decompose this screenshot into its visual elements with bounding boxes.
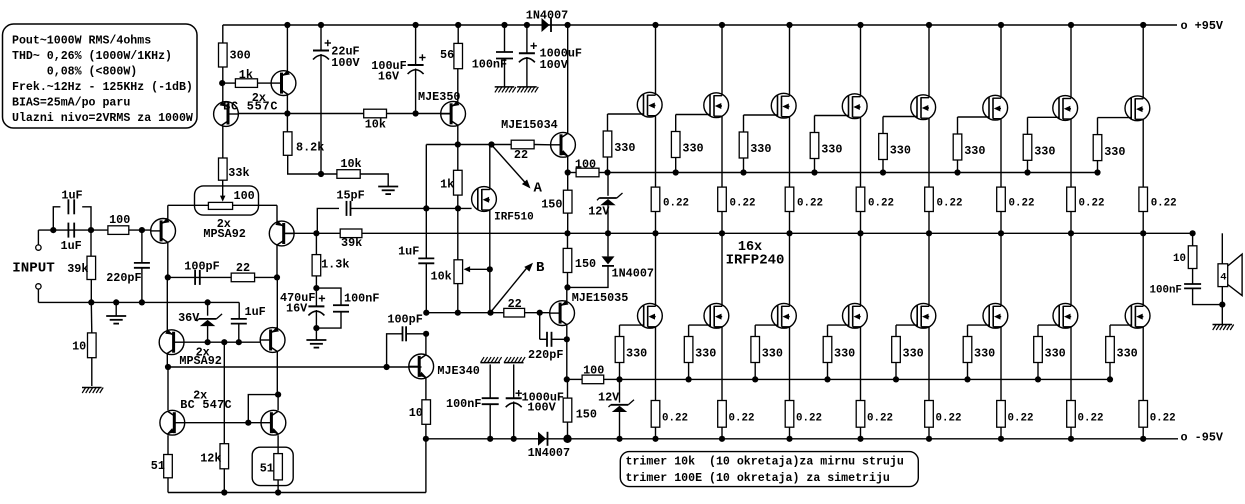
svg-text:100nF: 100nF — [344, 292, 379, 306]
svg-text:330: 330 — [682, 142, 703, 156]
trimmer 51 — [252, 447, 293, 492]
mosfet IRFP240 top #1 — [637, 25, 662, 187]
capacitor 15pF — [317, 188, 364, 233]
wire BC547 bases — [185, 420, 261, 426]
svg-text:1k: 1k — [440, 178, 454, 192]
resistor 150 ii — [563, 233, 596, 287]
resistor 0.22 top #2 — [718, 187, 756, 233]
svg-text:12V: 12V — [598, 391, 620, 405]
resistor 0.22 top #3 — [785, 187, 823, 233]
resistor 100 input — [108, 213, 150, 234]
svg-text:22: 22 — [514, 148, 528, 162]
resistor 330 bottom #5 — [892, 337, 924, 380]
resistor 1k IRF510 — [440, 145, 462, 209]
svg-text:10k: 10k — [340, 157, 361, 171]
svg-text:150: 150 — [575, 257, 596, 271]
transistor BC557C #2 — [271, 25, 296, 114]
svg-text:1uF: 1uF — [61, 239, 82, 253]
resistor 330 bottom #2 — [684, 337, 716, 380]
label 2x BC557C — [223, 91, 278, 114]
capacitor 220pF input — [106, 230, 150, 302]
svg-text:220pF: 220pF — [528, 348, 563, 362]
wire input top — [38, 227, 108, 233]
capacitor 100nF top — [472, 25, 513, 87]
resistor 8.2k — [283, 114, 337, 175]
resistor 56 — [440, 25, 463, 69]
resistor 33k — [219, 158, 250, 180]
svg-text:0.22: 0.22 — [1150, 412, 1176, 424]
svg-text:BC 547C: BC 547C — [180, 398, 232, 412]
resistor 0.22 top #6 — [997, 187, 1035, 233]
resistor 330 bottom #7 — [1034, 337, 1066, 380]
svg-text:MJE340: MJE340 — [437, 364, 479, 378]
ground 1000uF bottom — [504, 357, 525, 363]
svg-text:1N4007: 1N4007 — [526, 9, 568, 23]
resistor 39k input — [67, 230, 95, 302]
svg-text:0.22: 0.22 — [662, 412, 688, 424]
svg-text:0.22: 0.22 — [1078, 412, 1104, 424]
wire base line 113.5 — [238, 110, 451, 116]
node +95V terminal label — [1181, 19, 1224, 33]
info box — [3, 24, 198, 128]
capacitor 100nF 470uF parallel — [313, 288, 379, 331]
svg-text:330: 330 — [821, 143, 842, 157]
svg-text:330: 330 — [834, 346, 855, 360]
mosfet IRFP240 bottom #8 — [1125, 233, 1150, 400]
wire BC557C1 collector — [222, 125, 224, 158]
transistor MJE15035 — [549, 287, 628, 379]
svg-text:0.22: 0.22 — [1079, 198, 1105, 210]
svg-text:IRF510: IRF510 — [494, 212, 534, 224]
svg-text:100: 100 — [234, 189, 255, 203]
mosfet IRFP240 top #2 — [704, 25, 729, 187]
capacitor 100uF — [371, 25, 425, 114]
node bias top junction — [565, 169, 571, 175]
svg-text:MPSA92: MPSA92 — [203, 227, 245, 241]
transistor MJE15034 — [501, 25, 575, 173]
svg-text:1N4007: 1N4007 — [612, 266, 654, 280]
node bias bottom junction — [564, 376, 570, 382]
resistor 10k to ground — [318, 157, 388, 187]
transistor BC547C #1 — [160, 367, 185, 455]
svg-text:100: 100 — [109, 213, 130, 227]
svg-text:1k: 1k — [239, 68, 253, 82]
svg-text:100V: 100V — [331, 56, 360, 70]
mosfet IRFP240 top #3 — [771, 25, 796, 187]
svg-text:0.22: 0.22 — [1009, 198, 1035, 210]
svg-text:22: 22 — [236, 261, 250, 275]
mosfet IRFP240 bottom #4 — [843, 233, 868, 400]
wire feedback line — [285, 230, 1195, 236]
svg-text:100nF: 100nF — [472, 58, 507, 72]
node +95V rail junctions — [284, 22, 1146, 28]
svg-text:0.22: 0.22 — [797, 198, 823, 210]
resistor 330 bottom #8 — [1106, 337, 1138, 380]
wire gate bottom #5 — [896, 325, 917, 336]
zener 12V top — [588, 173, 622, 234]
resistor 0.22 bottom #3 — [785, 401, 822, 439]
svg-text:330: 330 — [614, 141, 635, 155]
wire bases pair2 — [184, 339, 260, 345]
resistor 330 top #6 — [953, 134, 985, 173]
resistor 0.22 bottom #6 — [997, 401, 1034, 439]
resistor 330 top #3 — [739, 132, 771, 173]
wire collector-base link — [248, 392, 281, 423]
resistor 0.22 bottom #7 — [1067, 401, 1104, 439]
resistor 330 top #7 — [1023, 134, 1055, 172]
ground 100nF bottom — [480, 357, 501, 363]
ground speaker — [1213, 305, 1234, 330]
capacitor 100nF zobel — [1150, 269, 1223, 305]
label 2x BC547C — [180, 388, 232, 411]
transistor MPSA92 #4 — [260, 277, 285, 394]
capacitor 470uF — [280, 285, 325, 340]
node -95V terminal label — [1181, 431, 1224, 445]
diode 1N4007 bottom rail — [528, 432, 570, 460]
svg-text:12V: 12V — [588, 204, 610, 218]
wire gate bottom #1 — [620, 325, 644, 336]
ground 1000uF top — [517, 87, 538, 93]
svg-text:10: 10 — [72, 339, 86, 353]
resistor 330 top #2 — [671, 132, 703, 173]
transistor BC557C #1 — [214, 101, 239, 127]
mosfet IRFP240 bottom #3 — [772, 233, 797, 400]
svg-text:10: 10 — [409, 406, 423, 420]
wire gate top #2 — [676, 115, 710, 132]
svg-text:39k: 39k — [341, 236, 362, 250]
speaker 4 ohm — [1218, 233, 1242, 307]
ground 470uF — [306, 340, 326, 348]
label 1N4007 mid — [612, 266, 654, 280]
resistor 100 bias top — [568, 158, 608, 177]
svg-text:MPSA92: MPSA92 — [179, 354, 221, 368]
wire lower base line — [423, 310, 504, 316]
svg-text:39k: 39k — [67, 262, 88, 276]
capacitor 100nF bottom — [446, 364, 499, 438]
wire top gate bus — [604, 169, 1100, 175]
ground 100nF top — [495, 87, 516, 93]
svg-text:1N4007: 1N4007 — [528, 446, 570, 460]
wire input ground line — [38, 299, 239, 305]
mosfet IRFP240 bottom #2 — [704, 233, 729, 400]
svg-text:IRFP240: IRFP240 — [726, 252, 785, 268]
svg-text:330: 330 — [695, 346, 716, 360]
wire second stage emitter line — [165, 364, 422, 370]
svg-text:0.22: 0.22 — [937, 198, 963, 210]
svg-text:51: 51 — [260, 461, 274, 475]
svg-text:0.22: 0.22 — [1151, 198, 1177, 210]
wire -95V rail — [426, 438, 1178, 440]
wire gate bottom #4 — [828, 325, 849, 336]
wire gate bottom #8 — [1110, 325, 1131, 336]
mosfet IRFP240 top #4 — [842, 25, 867, 187]
resistor 12k — [200, 342, 228, 492]
svg-text:MJE15034: MJE15034 — [501, 118, 558, 132]
resistor 100 bias bottom — [567, 363, 620, 383]
wire gate top #6 — [958, 117, 990, 134]
svg-text:330: 330 — [1045, 346, 1066, 360]
ground input 10 — [82, 358, 103, 393]
svg-text:16V: 16V — [378, 70, 400, 84]
svg-text:0,08% (<800W): 0,08% (<800W) — [47, 65, 137, 78]
wire emitters to trimmer — [168, 204, 277, 206]
svg-text:o -95V: o -95V — [1181, 431, 1224, 445]
mosfet IRF510 — [472, 145, 534, 313]
trimmer 100 — [195, 180, 259, 215]
diode 1N4007 mid — [564, 233, 614, 290]
capacitor 1000uF top — [519, 25, 582, 87]
resistor 22 stage1 — [231, 261, 254, 282]
wire gate top #8 — [1098, 118, 1132, 135]
resistor 22 MJE15034 — [511, 140, 534, 162]
capacitor 1uF input parallel loop — [53, 189, 91, 230]
resistor 150 iii — [563, 379, 597, 438]
transistor MJE350 — [418, 69, 466, 145]
capacitor 100pF stage1 — [184, 260, 219, 285]
resistor 330 bottom #3 — [751, 337, 783, 380]
resistor 1k — [222, 68, 271, 88]
resistor 0.22 bottom #2 — [718, 401, 755, 439]
svg-text:22: 22 — [508, 297, 522, 311]
wire gate bottom #7 — [1038, 325, 1059, 336]
resistor 22 MJE15035 — [504, 297, 550, 317]
svg-text:100V: 100V — [540, 58, 569, 72]
wire gate top #5 — [883, 117, 917, 134]
svg-text:150: 150 — [576, 407, 597, 421]
svg-text:10: 10 — [1173, 253, 1186, 265]
diode 1N4007 top rail — [526, 9, 568, 33]
svg-text:330: 330 — [1104, 145, 1125, 159]
wire gate top #3 — [744, 115, 778, 132]
svg-text:Frek.~12Hz - 125KHz (-1dB): Frek.~12Hz - 125KHz (-1dB) — [12, 81, 193, 94]
svg-text:o +95V: o +95V — [1181, 19, 1224, 33]
svg-text:A: A — [534, 181, 543, 197]
wire VAS collector — [426, 141, 534, 147]
mosfet IRFP240 bottom #7 — [1053, 233, 1078, 400]
wire collectors join — [165, 274, 280, 280]
resistor 0.22 bottom #5 — [925, 401, 962, 439]
resistor 0.22 top #5 — [925, 187, 963, 233]
svg-text:0.22: 0.22 — [730, 198, 756, 210]
capacitor 100pF MJE340 — [387, 313, 427, 367]
svg-text:THD~ 0,26% (1000W/1KHz): THD~ 0,26% (1000W/1KHz) — [12, 50, 172, 63]
svg-text:INPUT: INPUT — [12, 261, 55, 277]
transistor MPSA92 #2 — [269, 205, 294, 277]
svg-text:220pF: 220pF — [106, 271, 141, 285]
capacitor 1uF input series — [61, 223, 82, 253]
svg-text:15pF: 15pF — [336, 188, 364, 202]
node B arrow — [491, 260, 545, 312]
svg-text:33k: 33k — [228, 166, 249, 180]
resistor 330 top #4 — [810, 133, 842, 173]
svg-text:B: B — [536, 260, 545, 276]
mosfet IRFP240 top #6 — [983, 25, 1008, 187]
resistor 330 top #8 — [1093, 135, 1125, 173]
svg-text:100pF: 100pF — [184, 260, 219, 274]
svg-text:100pF: 100pF — [387, 313, 422, 327]
label 2x MPSA92 second — [179, 346, 221, 368]
mosfet IRFP240 bottom #6 — [983, 233, 1008, 400]
svg-text:4: 4 — [1220, 271, 1226, 283]
svg-text:330: 330 — [974, 346, 995, 360]
label INPUT — [12, 261, 55, 277]
svg-text:100V: 100V — [527, 401, 556, 415]
capacitor 1000uF bottom — [506, 364, 564, 438]
svg-text:MJE15035: MJE15035 — [572, 291, 629, 305]
wire gate top #4 — [815, 116, 849, 133]
svg-text:36V: 36V — [178, 311, 200, 325]
svg-text:330: 330 — [762, 346, 783, 360]
resistor 10 input — [72, 302, 96, 357]
capacitor 1uF VAS — [398, 244, 434, 312]
transistor MPSA92 #1 — [150, 205, 175, 277]
resistor 10 MJE340 — [409, 400, 431, 439]
svg-text:150: 150 — [541, 198, 562, 212]
resistor 0.22 top #4 — [856, 187, 894, 233]
node A arrow — [492, 146, 542, 197]
svg-text:0.22: 0.22 — [867, 412, 893, 424]
svg-text:16V: 16V — [286, 302, 308, 316]
mosfet IRFP240 bottom #1 — [638, 233, 663, 400]
svg-text:56: 56 — [440, 48, 454, 62]
wire VAS vertical — [425, 145, 427, 259]
resistor 10k first — [364, 109, 387, 132]
svg-text:trimer 10k (10 okretaja)za mi: trimer 10k (10 okretaja)za mirnu struju — [626, 455, 904, 468]
wire 300 to junction — [219, 67, 225, 103]
svg-text:100: 100 — [583, 363, 604, 377]
resistor 330 bottom #6 — [963, 337, 995, 380]
svg-text:10k: 10k — [365, 118, 386, 132]
svg-text:330: 330 — [903, 346, 924, 360]
svg-text:100nF: 100nF — [1150, 285, 1182, 297]
resistor 330 bottom #4 — [823, 337, 855, 380]
transistor MPSA92 #3 — [159, 277, 184, 367]
svg-text:1uF: 1uF — [398, 244, 419, 258]
svg-text:51: 51 — [151, 459, 165, 473]
wire gate bottom #3 — [755, 325, 778, 336]
resistor 0.22 bottom #1 — [651, 401, 688, 439]
resistor 150 i — [541, 173, 572, 234]
svg-text:BIAS=25mA/po paru: BIAS=25mA/po paru — [12, 96, 130, 109]
resistor 330 top #5 — [879, 134, 911, 173]
wire gate bottom #2 — [689, 325, 711, 336]
svg-text:330: 330 — [750, 142, 771, 156]
capacitor 22uF — [313, 25, 361, 174]
svg-text:0.22: 0.22 — [1008, 412, 1034, 424]
trimpot 10k VAS — [431, 208, 491, 312]
svg-text:330: 330 — [626, 346, 647, 360]
svg-text:MJE350: MJE350 — [418, 90, 460, 104]
svg-text:0.22: 0.22 — [796, 412, 822, 424]
resistor 300 — [219, 43, 251, 67]
svg-text:0.22: 0.22 — [868, 198, 894, 210]
svg-text:0.22: 0.22 — [936, 412, 962, 424]
svg-text:100nF: 100nF — [446, 397, 481, 411]
wire gate IRF510 — [351, 205, 472, 211]
svg-text:330: 330 — [890, 144, 911, 158]
transistor MJE340 — [409, 331, 480, 400]
wire bottom gate bus — [616, 376, 1113, 382]
svg-text:0.22: 0.22 — [663, 198, 689, 210]
transistor BC547C #2 — [261, 395, 286, 454]
mosfet IRFP240 top #5 — [911, 25, 936, 187]
resistor 51 — [151, 455, 173, 493]
wire rail to 300 — [222, 25, 224, 43]
svg-text:1uF: 1uF — [61, 189, 82, 203]
resistor 0.22 top #1 — [651, 187, 689, 233]
zener 36V — [178, 299, 222, 342]
wire +95V rail — [223, 24, 1177, 26]
label 16x IRFP240 — [726, 240, 785, 268]
resistor 39k feedback — [340, 229, 362, 250]
svg-text:300: 300 — [230, 48, 251, 62]
resistor 10 zobel — [1173, 233, 1197, 268]
svg-text:330: 330 — [1034, 145, 1055, 159]
label 2x MPSA92 first — [203, 217, 245, 241]
mosfet IRFP240 bottom #5 — [911, 233, 936, 400]
svg-text:trimer 100E (10 okretaja) za s: trimer 100E (10 okretaja) za simetriju — [626, 472, 890, 485]
svg-text:330: 330 — [964, 144, 985, 158]
wire gate top #7 — [1028, 117, 1060, 134]
svg-text:12k: 12k — [200, 451, 221, 465]
resistor 0.22 bottom #4 — [856, 401, 893, 439]
svg-text:330: 330 — [1117, 346, 1138, 360]
svg-text:1.3k: 1.3k — [321, 257, 349, 271]
ground 10k — [378, 187, 398, 195]
svg-text:100: 100 — [575, 158, 596, 172]
svg-text:Ulazni nivo=2VRMS za 1000W: Ulazni nivo=2VRMS za 1000W — [12, 112, 193, 125]
capacitor 1uF zener — [231, 302, 266, 342]
mosfet IRFP240 top #7 — [1053, 25, 1078, 187]
terminal input+ — [36, 230, 41, 250]
wire gate bottom #6 — [968, 325, 990, 336]
svg-text:10k: 10k — [431, 269, 452, 283]
resistor 330 bottom #1 — [615, 337, 647, 380]
resistor 0.22 top #8 — [1139, 187, 1177, 233]
mosfet IRFP240 top #8 — [1125, 25, 1150, 187]
svg-text:Pout~1000W RMS/4ohms: Pout~1000W RMS/4ohms — [12, 34, 151, 47]
wire bottom left return — [168, 439, 426, 496]
svg-text:1uF: 1uF — [245, 305, 266, 319]
resistor 0.22 top #7 — [1067, 187, 1105, 233]
ground input — [106, 302, 126, 323]
svg-text:BC 557C: BC 557C — [223, 99, 278, 113]
capacitor 220pF MJE15035 — [528, 313, 567, 362]
note box — [620, 452, 918, 487]
svg-text:8.2k: 8.2k — [296, 140, 324, 154]
zener 12V bottom — [598, 379, 634, 438]
resistor 330 top #1 — [603, 131, 635, 173]
resistor 0.22 bottom #8 — [1139, 401, 1176, 439]
wire gate top #1 — [608, 114, 644, 131]
node -95V rail junctions — [423, 435, 1146, 443]
resistor 1.3k — [312, 233, 349, 288]
svg-text:0.22: 0.22 — [729, 412, 755, 424]
terminal input- — [36, 284, 41, 303]
